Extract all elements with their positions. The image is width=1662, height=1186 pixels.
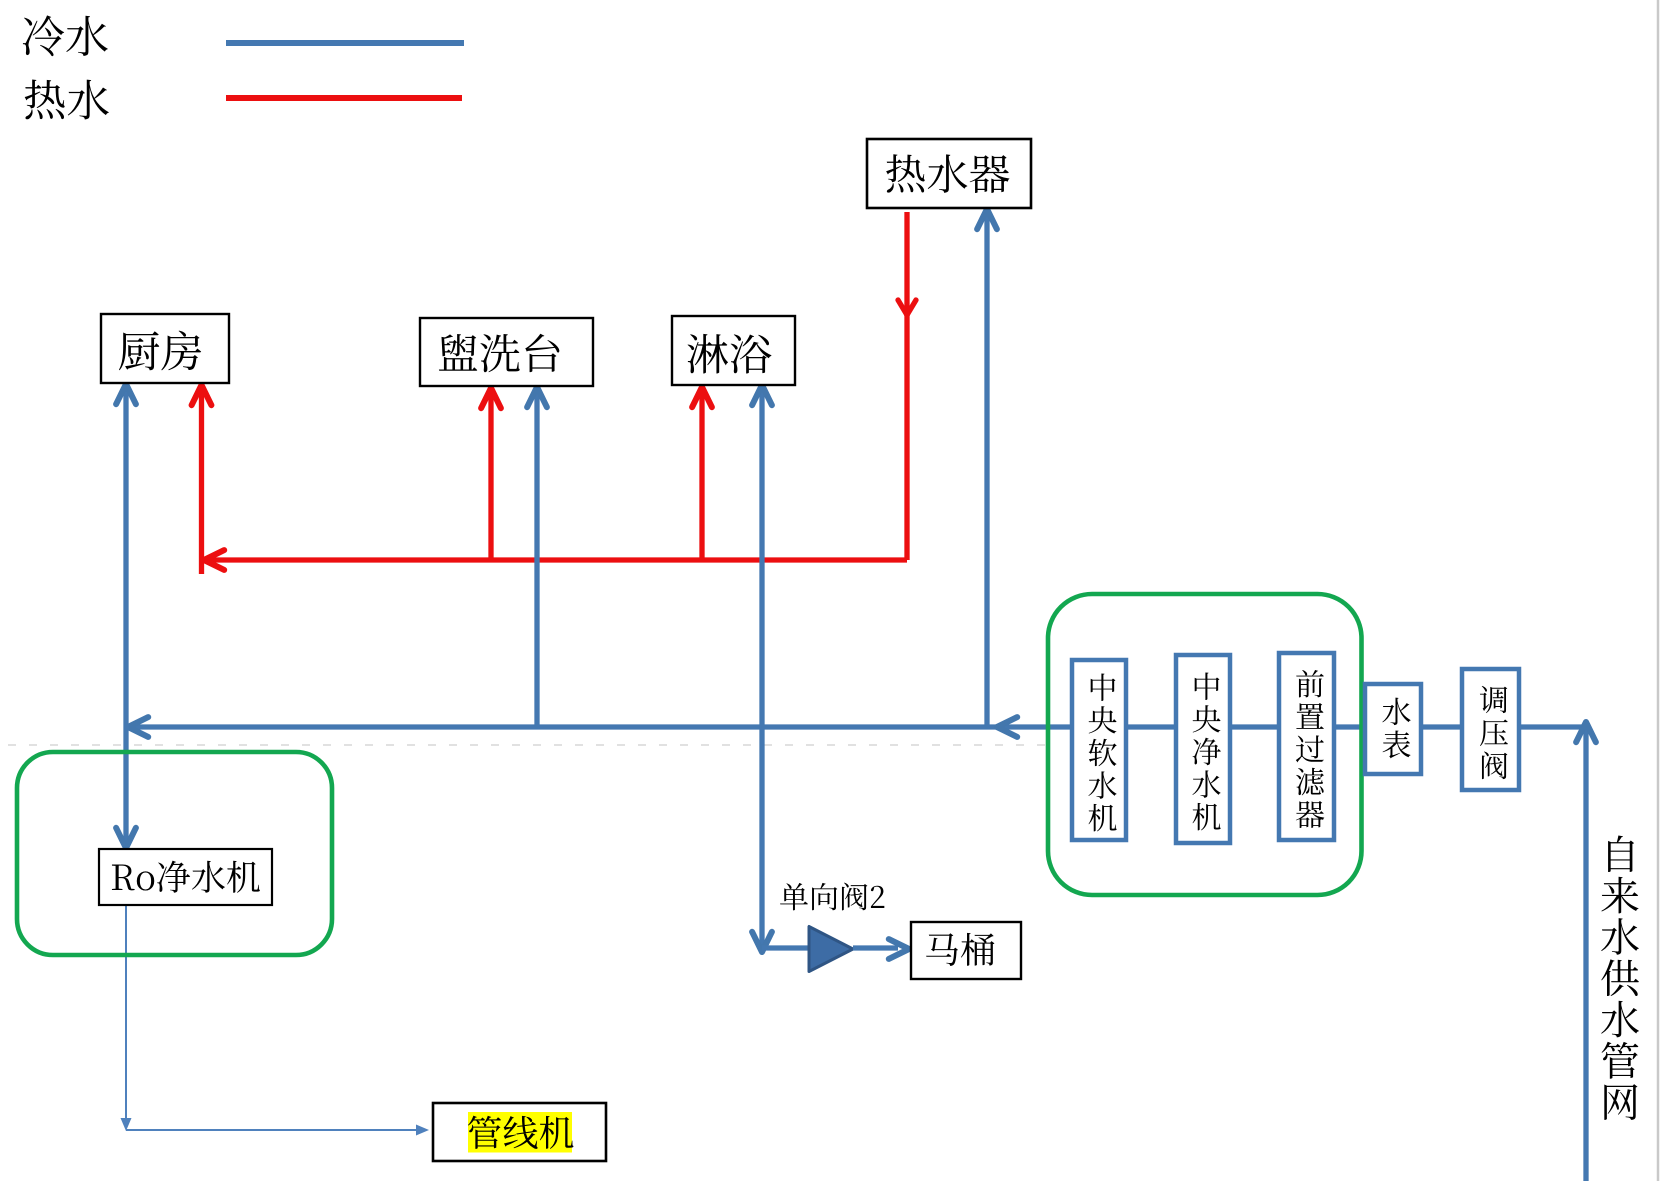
box toilet 马桶 [911, 922, 1021, 979]
legend hot water red line [226, 95, 462, 101]
box water meter 水表 [1365, 684, 1421, 774]
box pipeline machine 管线机 [433, 1103, 606, 1161]
box Ro purifier Ro净水机 [99, 849, 272, 905]
cold riser to washbasin 盥洗台 [534, 388, 539, 727]
connector pressure valve to supply main [1519, 724, 1586, 729]
main pipe left arrow into Ro junction [128, 717, 148, 737]
hot pipe heater to manifold [904, 315, 909, 560]
box central purifier 中央净水机 [1176, 655, 1230, 843]
box water heater 热水器 [867, 139, 1031, 208]
hot riser to shower 淋浴 [699, 388, 704, 560]
box kitchen 厨房 [101, 314, 229, 383]
check valve triangle 单向阀2 [809, 927, 853, 972]
legend cold water blue line [226, 40, 464, 46]
hot pipe from heater down (upper segment with down arrow) [904, 212, 909, 316]
hot riser to kitchen 厨房 [199, 386, 204, 574]
cold riser to shower 淋浴 [759, 386, 764, 727]
mid arrow on main pipe (left, near heater riser) [997, 717, 1017, 737]
yellow highlight [468, 1112, 572, 1153]
cold riser to kitchen 厨房 [123, 385, 128, 727]
label check valve 单向阀2 [780, 883, 808, 911]
main cold water horizontal pipe [129, 724, 1072, 729]
green group around central filters [1048, 594, 1362, 895]
hot manifold horizontal [206, 557, 907, 562]
hot manifold left arrow [204, 550, 224, 570]
box central softener 中央软水机 [1072, 660, 1126, 840]
connector water meter to pressure valve [1420, 724, 1462, 729]
purified water line to pipeline machine [126, 1129, 419, 1131]
box pressure valve 调压阀 [1462, 669, 1519, 790]
legend label cold water 冷水 [23, 15, 64, 56]
faint dashed guide line [8, 744, 1045, 746]
connector softener to purifier [1126, 724, 1176, 729]
connector purifier to prefilter [1230, 724, 1279, 729]
legend label hot water 热水 [25, 80, 65, 120]
toilet branch horizontal to check valve [762, 945, 814, 950]
box pre-filter 前置过滤器 [1279, 653, 1334, 840]
label tap water supply network 自来水供水管网 [1608, 835, 1634, 872]
right page edge [1657, 0, 1660, 1181]
connector prefilter to water meter [1334, 724, 1366, 729]
green group around Ro purifier [17, 752, 332, 955]
box shower 淋浴 [672, 316, 795, 385]
purified water line Ro down [125, 905, 127, 1121]
tap water supply riser [1583, 724, 1588, 1181]
pipe from check valve to toilet [853, 945, 898, 950]
cold drop to Ro purifier [123, 727, 128, 847]
cold drop to toilet branch [759, 727, 764, 951]
box washbasin 盥洗台 [420, 318, 593, 386]
cold riser to heater 热水器 [984, 210, 989, 727]
hot riser to washbasin 盥洗台 [488, 389, 493, 560]
